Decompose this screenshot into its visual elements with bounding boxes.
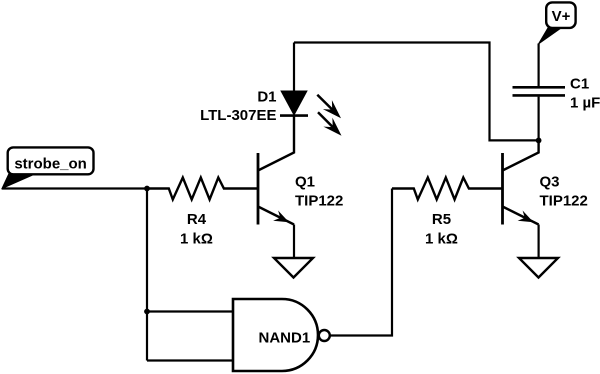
- LED D1 triangle: [282, 91, 307, 114]
- node C junction dot (top rail / C1 / Q3 collector): [536, 138, 542, 144]
- resistor R5: [392, 178, 502, 200]
- wire main horizontal from flag to R4: [2, 187, 148, 189]
- transistor Q1 emitter arrow: [273, 211, 289, 223]
- transistor Q3 emitter: [503, 207, 539, 225]
- node B junction dot (NAND input split): [144, 309, 150, 315]
- svg-text:LTL-307EE: LTL-307EE: [200, 107, 276, 124]
- wire top rail: [294, 43, 539, 141]
- node A junction dot (wire to NAND): [144, 186, 150, 192]
- transistor Q3 collector: [503, 140, 539, 170]
- svg-text:D1: D1: [257, 88, 276, 105]
- transistor Q1 base bar: [257, 153, 260, 225]
- svg-text:C1: C1: [570, 76, 589, 93]
- net flag strobe_on box: [8, 147, 94, 174]
- capacitor C1 plate bottom: [513, 94, 566, 97]
- wire vertical to NAND inputs: [146, 189, 148, 361]
- wire Q1 emitter to ground: [293, 225, 295, 258]
- LED D1 cathode bar: [280, 114, 308, 117]
- svg-text:Q1: Q1: [295, 174, 315, 191]
- wire NAND input bottom: [147, 359, 233, 361]
- svg-text:Q3: Q3: [540, 174, 560, 191]
- ground (Q3): [519, 258, 558, 278]
- capacitor C1 top wire: [537, 44, 539, 87]
- svg-text:TIP122: TIP122: [540, 192, 588, 209]
- power flag V+ tail: [539, 27, 563, 44]
- LED D1 anode wire: [293, 43, 295, 92]
- transistor Q1 collector: [258, 116, 294, 171]
- capacitor C1 bottom wire: [537, 97, 539, 141]
- resistor R4: [147, 178, 257, 200]
- wire Q3 emitter to ground: [537, 225, 539, 258]
- transistor Q3 emitter arrow: [518, 211, 534, 223]
- svg-text:strobe_on: strobe_on: [14, 156, 87, 173]
- wire NAND output to R5: [330, 189, 392, 336]
- logic gate NAND1 body: [233, 299, 318, 371]
- svg-text:1 µF: 1 µF: [570, 95, 600, 112]
- power flag V+ box: [546, 2, 575, 28]
- svg-text:V+: V+: [552, 8, 571, 25]
- capacitor C1 plate top: [513, 86, 566, 89]
- svg-text:R4: R4: [187, 211, 207, 228]
- logic gate NAND1 bubble: [319, 330, 330, 341]
- svg-text:1 kΩ: 1 kΩ: [425, 231, 458, 248]
- ground (Q1): [274, 258, 313, 278]
- LED D1 light arrow 2: [318, 112, 342, 136]
- LED D1 light arrow 1: [317, 95, 341, 119]
- transistor Q3 base bar: [501, 153, 504, 225]
- svg-text:1 kΩ: 1 kΩ: [180, 231, 213, 248]
- net flag strobe_on tail: [2, 174, 36, 189]
- svg-text:R5: R5: [432, 211, 451, 228]
- wire NAND input top: [147, 310, 233, 312]
- transistor Q1 emitter: [258, 207, 294, 225]
- svg-text:TIP122: TIP122: [295, 192, 343, 209]
- svg-text:NAND1: NAND1: [259, 330, 311, 347]
